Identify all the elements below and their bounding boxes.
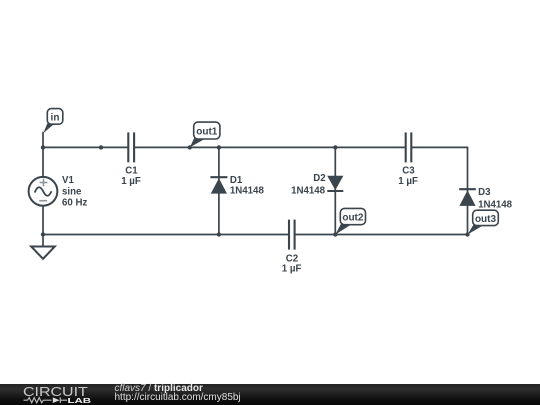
D2 labels [291, 173, 326, 197]
svg-text:1 µF: 1 µF [282, 264, 302, 275]
node dot D1 bottom [217, 232, 221, 236]
svg-text:1N4148: 1N4148 [291, 186, 326, 197]
CircuitLab logo [0, 384, 100, 405]
node flag out3 [468, 210, 499, 234]
wire top left segment [43, 146, 128, 148]
svg-text:C3: C3 [402, 165, 415, 176]
wire right vertical [467, 147, 469, 234]
node flag out1 [190, 122, 220, 147]
diode D1 [210, 177, 227, 193]
wire D1 branch [218, 147, 220, 234]
svg-text:V1: V1 [62, 175, 74, 186]
svg-text:out3: out3 [475, 214, 497, 225]
node dot out1 anchor [188, 145, 192, 149]
footer title text [115, 384, 203, 394]
wire V1 bottom lead [42, 206, 44, 247]
D1 labels [230, 175, 265, 197]
capacitor C2 [289, 220, 295, 250]
wire top middle segment [134, 146, 406, 148]
wire D2 branch [334, 147, 336, 234]
voltage source V1 [29, 177, 58, 206]
node dot out2 anchor [333, 232, 337, 236]
diode D3 [459, 189, 476, 206]
capacitor C1 [128, 132, 134, 162]
diode D2 [327, 176, 343, 191]
node flag out2 [335, 208, 365, 234]
svg-text:D3: D3 [478, 187, 491, 198]
node dot D1 top [217, 145, 221, 149]
node flag in [43, 109, 63, 134]
svg-text:LAB: LAB [68, 396, 92, 405]
footer url text [115, 393, 241, 403]
V1 labels [62, 175, 87, 208]
wire top right segment [411, 146, 467, 148]
wire V1 top lead [42, 147, 44, 177]
svg-text:in: in [51, 112, 60, 123]
svg-text:1N4148: 1N4148 [478, 200, 513, 211]
wire bottom right segment [295, 234, 468, 236]
node dot out3 anchor [465, 232, 469, 236]
svg-text:1N4148: 1N4148 [230, 186, 265, 197]
ground [31, 247, 55, 259]
svg-text:out2: out2 [342, 213, 364, 224]
svg-text:C1: C1 [125, 165, 138, 176]
svg-text:sine: sine [62, 186, 82, 197]
svg-text:D1: D1 [230, 175, 243, 186]
capacitor C3 [406, 132, 412, 162]
node dot V1 bottom [41, 232, 45, 236]
footer bar [0, 384, 540, 405]
svg-text:1 µF: 1 µF [398, 176, 418, 187]
svg-text:out1: out1 [196, 127, 218, 138]
svg-text:1 µF: 1 µF [121, 176, 141, 187]
D3 labels [478, 187, 513, 210]
node dot top wire x101 [99, 145, 103, 149]
junction dots [41, 145, 470, 237]
C2 labels [282, 254, 302, 275]
svg-text:D2: D2 [313, 173, 325, 184]
C3 labels [398, 165, 418, 187]
node dot D2 top [333, 145, 337, 149]
svg-text:60 Hz: 60 Hz [62, 198, 87, 209]
wire bottom left segment [43, 234, 289, 236]
C1 labels [121, 165, 141, 187]
wire in-flag stem [42, 133, 44, 148]
node dot in/top-left [41, 145, 45, 149]
